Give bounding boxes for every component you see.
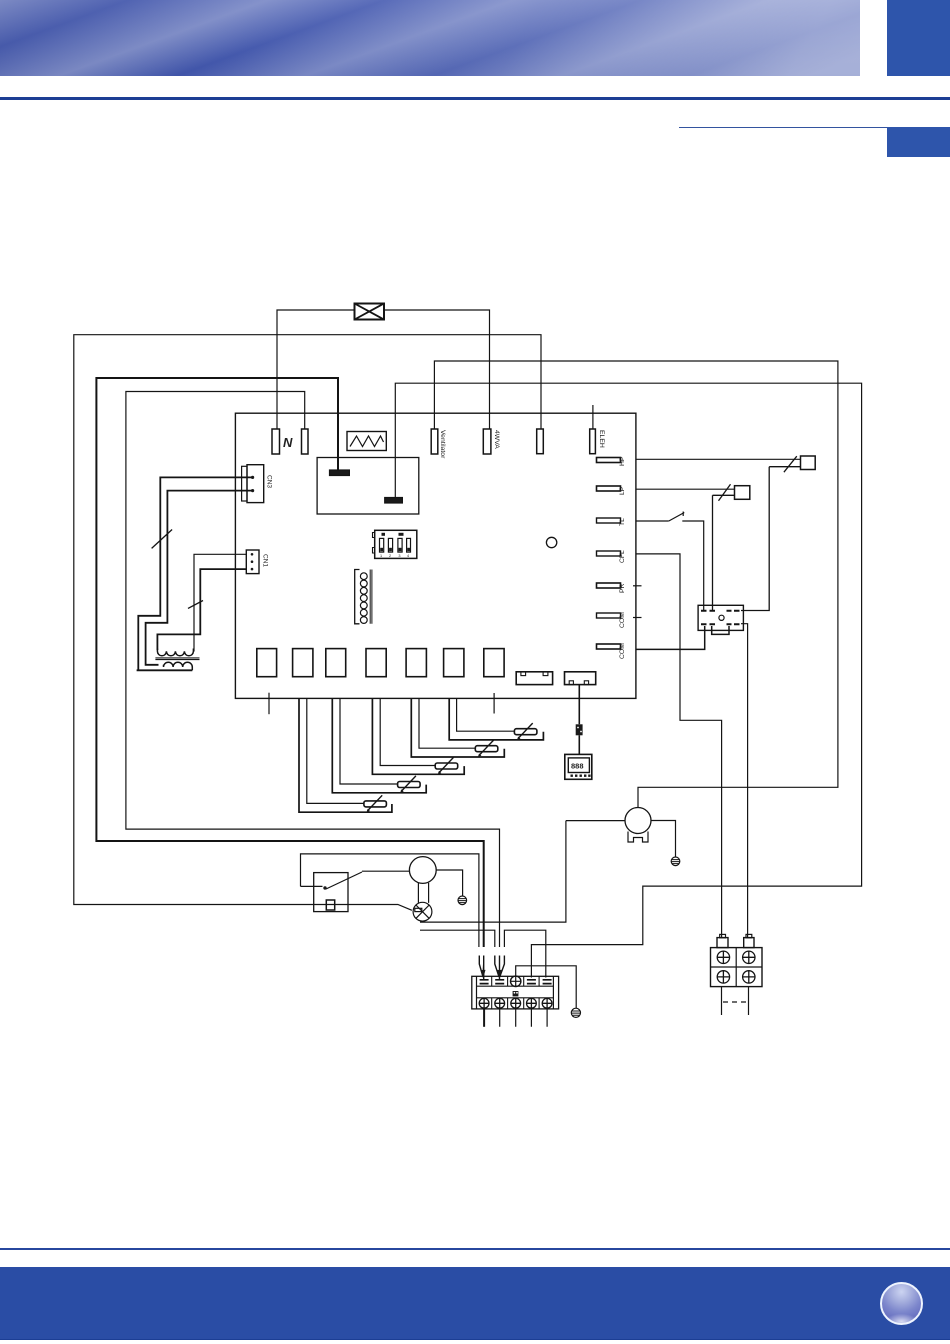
wire loop R1 outer: pin5 up, across top, down left side, along bottom to fan xyxy=(74,335,541,911)
svg-text:HP: HP xyxy=(619,456,626,466)
wire transformer-bar2 up across right down to T4 xyxy=(395,383,861,977)
wire terminal 3 to ground xyxy=(516,966,577,1008)
wire LP to pressure switch xyxy=(636,488,735,490)
switch LP box xyxy=(735,486,750,500)
relay K2 xyxy=(293,649,313,677)
fan shaft xyxy=(418,883,428,903)
footer sphere button xyxy=(880,1282,923,1325)
component B xyxy=(565,672,596,685)
PCB board outline xyxy=(235,413,636,698)
right terminal block lugs xyxy=(720,934,726,937)
wire X-box left to N pin xyxy=(277,310,355,429)
wire comp B down xyxy=(578,685,580,755)
relay K5 xyxy=(406,649,426,677)
switch HP slash xyxy=(784,456,797,472)
wire COM2 to relay xyxy=(636,626,705,649)
small circle on PCB xyxy=(546,537,556,547)
wire T2 jumper to T5 xyxy=(504,930,545,977)
component A xyxy=(516,672,552,685)
relay K3 xyxy=(326,649,346,677)
sub heading rule xyxy=(679,127,887,128)
relay KM box xyxy=(698,605,743,630)
switch LP slash xyxy=(719,484,731,501)
switch LP stub and drop to relay xyxy=(713,495,735,610)
relay K4 xyxy=(366,649,386,677)
svg-text:PR: PR xyxy=(619,583,626,593)
svg-text:ELEH: ELEH xyxy=(598,430,605,448)
pin PR xyxy=(597,583,621,588)
sensor S4 xyxy=(398,782,421,788)
svg-text:COM: COM xyxy=(619,643,626,659)
terminal bar2 xyxy=(385,498,403,504)
plug component xyxy=(576,724,583,735)
wire X-box right down to 4WVA pin xyxy=(384,310,490,429)
ground terminal xyxy=(571,1008,580,1017)
wire loop R3: N right pin up, left, down, bottom to T2 drop xyxy=(126,392,500,948)
header right blue box xyxy=(887,0,950,76)
connector 4WVA pin xyxy=(483,429,491,454)
wire relay to right terminal lug2 xyxy=(741,624,748,938)
switch contact dot xyxy=(323,886,326,889)
sub box under heater xyxy=(317,458,419,515)
DIP switch S1 xyxy=(375,530,417,558)
ground compressor xyxy=(671,857,680,866)
relay pins bottom xyxy=(701,623,740,625)
connector Ventilator pin xyxy=(431,429,438,454)
relay bottom jumper xyxy=(712,626,729,634)
relay K1 on PCB xyxy=(257,649,277,677)
wire fan motor right to ground xyxy=(436,870,462,896)
wire CN1 pin3 to transformer primary left xyxy=(157,569,246,650)
relay KF box xyxy=(314,873,348,912)
wire TL with thermal switch xyxy=(636,521,704,610)
sensor wires pair S3 xyxy=(380,698,435,765)
connector N pin right xyxy=(302,429,309,454)
pin COM xyxy=(597,613,621,618)
tick COM xyxy=(633,617,642,619)
svg-text:4: 4 xyxy=(407,554,409,558)
sensor wires pair S1 xyxy=(457,698,515,731)
header rule full width xyxy=(0,97,950,100)
relay KF coil xyxy=(326,900,334,910)
switch TL lever xyxy=(669,512,685,522)
transformer T1 xyxy=(157,649,193,656)
pin CFL xyxy=(597,551,621,556)
wires below right block xyxy=(722,987,749,1015)
relay pins top xyxy=(701,610,740,612)
connector pin5 xyxy=(537,429,544,454)
terminal dashes row1 xyxy=(480,980,552,984)
svg-text:TL: TL xyxy=(619,518,626,526)
svg-text:4WVA: 4WVA xyxy=(493,430,500,449)
svg-text:2: 2 xyxy=(389,554,391,558)
svg-text:1: 1 xyxy=(380,554,382,558)
wire CN1 pin1 to transformer primary right xyxy=(194,554,246,651)
screws bottom row xyxy=(479,998,552,1008)
svg-text:Ventilator: Ventilator xyxy=(439,430,446,459)
pin header CN (7 circles) xyxy=(355,570,360,624)
wires below terminal block xyxy=(483,1009,485,1027)
fan blade symbol xyxy=(413,902,432,921)
wire from loop to fan switch xyxy=(301,885,323,887)
wire Ventilator up over to right side down to motor top xyxy=(434,361,838,808)
svg-text:3: 3 xyxy=(398,554,400,558)
motor compressor M xyxy=(625,808,651,834)
wire CFL down to right terminal lug xyxy=(636,554,722,938)
relay K6 xyxy=(444,649,464,677)
slash on CN1 wires xyxy=(188,601,203,609)
connector CN3 xyxy=(242,466,247,501)
heater zigzag box xyxy=(347,432,386,451)
terminal 3 earth screw xyxy=(511,976,521,986)
PCB stub right xyxy=(493,693,495,714)
dashed link xyxy=(723,1001,748,1003)
pin TL xyxy=(597,518,621,523)
wire ELEH stub xyxy=(592,405,594,429)
switch lever to fan motor xyxy=(326,871,410,889)
svg-text:N: N xyxy=(283,435,293,450)
svg-text:888: 888 xyxy=(571,762,584,771)
sensor wires pair S4 xyxy=(340,698,398,784)
sensor S5 xyxy=(364,801,387,807)
wire motor right to ground xyxy=(651,821,676,858)
svg-text:COM: COM xyxy=(619,612,626,628)
display unit xyxy=(565,754,592,779)
ground fan xyxy=(458,896,467,905)
footer rule xyxy=(0,1248,950,1250)
wire fan lower to T2 funnel xyxy=(420,930,495,947)
sensor wires pair S2 xyxy=(419,698,475,748)
footer bar xyxy=(0,1267,950,1340)
svg-text:CFL: CFL xyxy=(619,550,626,563)
tick PR xyxy=(633,585,642,587)
relay K7 xyxy=(484,649,504,677)
svg-text:CN1: CN1 xyxy=(262,554,269,567)
sensor S1 xyxy=(514,729,537,735)
pin HP xyxy=(597,458,621,463)
PCB stub left xyxy=(268,693,270,715)
center glyph xyxy=(513,991,519,996)
connector N pin left xyxy=(272,429,280,454)
wire loop R2 thick: terminal bar1 up, left, down, bottom to T1 drop xyxy=(96,378,483,947)
funnel arrows into terminal 2 xyxy=(495,956,505,981)
compressor base xyxy=(628,832,648,843)
wire fan bottom to motor feed xyxy=(420,821,566,923)
wire loop H3: switch box to fan circuit xyxy=(301,854,479,947)
pin LP xyxy=(597,486,621,491)
pin COM2 xyxy=(597,644,621,649)
wire CN3 pin2 to transformer secondary left xyxy=(146,491,253,665)
wire motor left xyxy=(566,820,625,822)
svg-text:CN3: CN3 xyxy=(266,475,273,488)
sensor S3 xyxy=(435,763,458,769)
terminal bar1 xyxy=(330,470,350,476)
header banner xyxy=(0,0,860,76)
heading right blue box xyxy=(887,127,950,157)
sensor wires pair S5 xyxy=(307,698,364,803)
wire CN3 pin1 to transformer secondary xyxy=(137,477,253,670)
terminal block main xyxy=(472,976,559,1009)
sensor S2 xyxy=(475,746,498,752)
connector ELEH pin xyxy=(590,429,596,454)
connector CN1 xyxy=(246,550,259,574)
switch HP stub and drop to relay xyxy=(741,467,801,611)
switch HP box xyxy=(801,456,816,470)
right terminal block xyxy=(711,948,763,987)
wire HP to pressure switch xyxy=(636,458,801,460)
slash on CN3 wires xyxy=(152,530,173,549)
funnel arrows into terminal 1 xyxy=(479,956,483,981)
fan motor M xyxy=(409,857,436,884)
svg-text:LP: LP xyxy=(619,486,626,495)
fuse X-box xyxy=(355,304,385,320)
